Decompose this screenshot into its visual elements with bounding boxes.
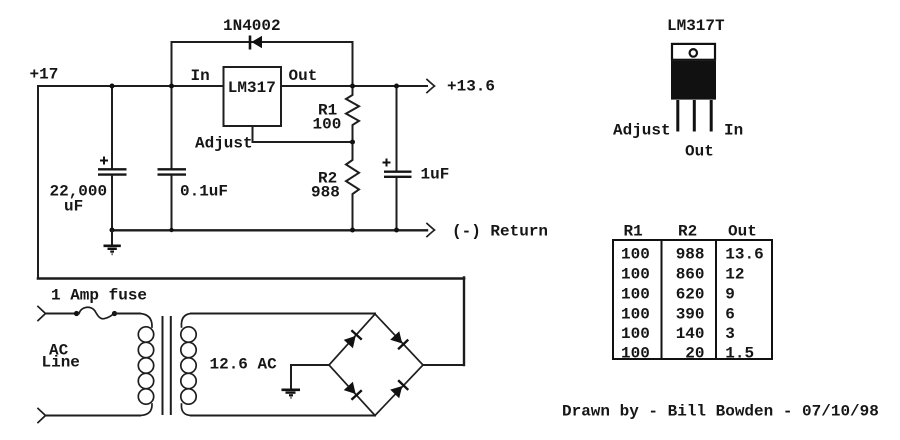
svg-text:3: 3 (725, 325, 735, 343)
svg-text:100: 100 (313, 116, 342, 134)
arrow +13.6 output (427, 80, 435, 93)
wire out rail to +13.6 (281, 85, 427, 87)
wire secondary bottom to bridge (191, 415, 375, 417)
table row 2 (621, 266, 745, 284)
wire bridge left vertex to ground (291, 365, 329, 389)
bridge rectifier diamond (329, 314, 423, 416)
junction dot adjust node (350, 140, 355, 145)
diode D3 bridge top-right (390, 331, 409, 350)
capacitor C2 lead bottom (171, 176, 173, 230)
svg-text:100: 100 (621, 305, 650, 323)
table row 5 (621, 325, 735, 343)
capacitor C1 lead bottom (111, 176, 113, 230)
node (-) Return label (452, 223, 548, 241)
svg-text:140: 140 (676, 325, 705, 343)
svg-text:9: 9 (725, 286, 735, 304)
capacitor C2 0.1uF lead top (171, 86, 173, 168)
wire AC top to fuse (46, 313, 77, 315)
svg-text:100: 100 (621, 286, 650, 304)
table row 3 (621, 286, 735, 304)
value 100 of R1 (313, 116, 342, 134)
wire bridge output horizontal (423, 364, 464, 366)
ground symbol main (104, 230, 121, 254)
wire right vertical to bridge (463, 278, 465, 366)
svg-text:100: 100 (621, 246, 650, 264)
label AC Line (42, 342, 80, 372)
svg-text:(-) Return: (-) Return (452, 223, 548, 241)
junction dot ground rail R2 (350, 228, 355, 233)
wire secondary top to bridge (191, 313, 375, 315)
svg-text:+13.6: +13.6 (447, 78, 495, 96)
svg-text:Line: Line (42, 354, 80, 372)
pin label Out package (685, 143, 714, 161)
pin label In (191, 67, 210, 85)
capacitor C3 lead bottom (396, 178, 398, 230)
svg-text:12.6 AC: 12.6 AC (210, 356, 278, 374)
junction dot top rail diode/C2 (169, 84, 174, 89)
table header R1 (624, 223, 643, 241)
capacitor C1 22000uF lead top (111, 86, 113, 168)
transformer T1 secondary top arc (181, 314, 191, 328)
node +17 label (30, 66, 59, 84)
resistor R1 (346, 86, 359, 142)
svg-text:In: In (191, 67, 210, 85)
fuse F1 (74, 307, 117, 319)
transformer T1 primary bottom arc (140, 404, 152, 416)
transformer T1 secondary bottom arc (181, 404, 191, 416)
table row 1 (621, 246, 764, 264)
table header Out (728, 223, 757, 241)
capacitor C3 1uF lead top (396, 86, 398, 170)
table column separator 1 (661, 240, 663, 359)
wire ground rail (112, 229, 427, 231)
package leg Adjust (676, 100, 679, 132)
transistor package mounting hole (690, 49, 697, 57)
transformer T1 primary top arc (140, 314, 152, 328)
diode D5 bridge bottom-right (390, 380, 409, 399)
junction dot ground rail left (110, 228, 115, 233)
annotation drawn by (562, 403, 879, 421)
plus sign C1 (100, 157, 108, 165)
wire adjust pin (253, 126, 353, 142)
transformer T1 primary winding (138, 327, 153, 404)
svg-text:+17: +17 (30, 66, 59, 84)
svg-text:988: 988 (311, 184, 340, 202)
svg-text:13.6: 13.6 (725, 246, 763, 264)
svg-text:1N4002: 1N4002 (223, 17, 281, 35)
svg-text:In: In (724, 122, 743, 140)
resistor R2 (346, 142, 359, 230)
diode D2 bridge top-left (343, 330, 362, 349)
pin label Adjust package (613, 122, 671, 140)
value 12.6 AC (210, 356, 278, 374)
junction dot out rail C3 (394, 84, 399, 89)
value 1uF (421, 166, 450, 184)
capacitor C3 1uF plates (384, 172, 412, 177)
table column separator 2 (715, 240, 717, 359)
svg-text:LM317: LM317 (228, 79, 276, 97)
svg-text:Drawn by - Bill Bowden - 07/10: Drawn by - Bill Bowden - 07/10/98 (562, 403, 879, 421)
value 988 of R2 (311, 184, 340, 202)
label R1 (318, 102, 337, 120)
wire fuse to transformer (115, 313, 141, 315)
wire AC bottom to transformer (46, 415, 141, 417)
svg-text:988: 988 (676, 246, 705, 264)
svg-text:Out: Out (685, 143, 714, 161)
svg-text:R2: R2 (678, 223, 697, 241)
package leg Out (693, 100, 696, 132)
wire diode loop (172, 42, 353, 86)
svg-text:390: 390 (676, 305, 705, 323)
svg-text:Out: Out (289, 67, 318, 85)
svg-text:1uF: 1uF (421, 166, 450, 184)
diode D4 bridge bottom-left (343, 381, 362, 400)
capacitor C1 22000uF plates (98, 169, 127, 174)
label R2 (318, 170, 337, 188)
svg-text:100: 100 (621, 325, 650, 343)
pin label Adjust (195, 135, 253, 153)
arrow (-) return output (427, 224, 435, 237)
svg-text:Out: Out (728, 223, 757, 241)
transformer T1 core (163, 316, 171, 415)
terminal AC line top (38, 307, 46, 321)
plus sign C3 (383, 159, 391, 167)
label LM317T package (667, 17, 725, 35)
wire bottom horizontal feed (38, 277, 464, 280)
junction dot top rail C1 (110, 84, 115, 89)
terminal AC line bottom (38, 409, 46, 423)
svg-text:860: 860 (676, 266, 705, 284)
svg-text:1.5: 1.5 (725, 345, 754, 363)
op-amp U1 LM317 regulator box (224, 67, 282, 126)
wire left vertical from +17 (37, 86, 39, 279)
svg-text:R1: R1 (624, 223, 643, 241)
transistor package U1 tab (672, 44, 715, 60)
label 1N4002 (223, 17, 281, 35)
pin label In package (724, 122, 743, 140)
svg-text:12: 12 (725, 266, 744, 284)
svg-text:620: 620 (676, 286, 705, 304)
svg-text:100: 100 (621, 345, 650, 363)
svg-text:Adjust: Adjust (195, 135, 253, 153)
junction dot ground rail C2 (169, 228, 173, 232)
svg-text:6: 6 (725, 305, 735, 323)
svg-text:uF: uF (64, 198, 83, 216)
value 22,000 (50, 183, 108, 201)
value uF (64, 198, 83, 216)
transformer T1 secondary winding (181, 327, 196, 404)
table row 6 (621, 345, 754, 363)
svg-text:100: 100 (621, 266, 650, 284)
wire +17 top rail (38, 85, 224, 87)
transistor package U1 body (671, 61, 716, 100)
label 1 Amp fuse (51, 287, 147, 305)
junction dot out node (350, 84, 355, 89)
package leg In (710, 100, 713, 132)
diode D1 1N4002 symbol (250, 36, 262, 50)
svg-text:1 Amp fuse: 1 Amp fuse (51, 287, 147, 305)
svg-text:20: 20 (685, 345, 704, 363)
svg-text:Adjust: Adjust (613, 122, 671, 140)
pin label Out (289, 67, 318, 85)
svg-text:0.1uF: 0.1uF (180, 183, 228, 201)
value 0.1uF (180, 183, 228, 201)
node +13.6 label (447, 78, 495, 96)
svg-text:LM317T: LM317T (667, 17, 725, 35)
capacitor C2 0.1uF plates (158, 169, 187, 174)
ground symbol bridge (282, 390, 301, 398)
table border (613, 240, 772, 359)
table header R2 (678, 223, 697, 241)
junction dot ground rail C3 (394, 228, 399, 233)
table row 4 (621, 305, 735, 323)
